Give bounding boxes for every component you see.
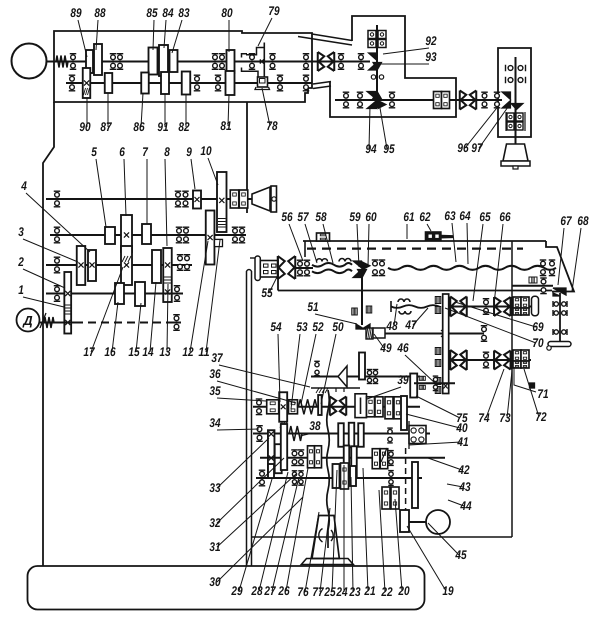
gear 89 [86, 50, 93, 73]
svg-text:10: 10 [200, 144, 211, 158]
svg-text:77: 77 [312, 585, 324, 599]
block R1-a [513, 297, 521, 308]
bearing A2-4 [277, 75, 284, 91]
svg-text:95: 95 [383, 142, 395, 156]
bearing B2-5 [494, 92, 501, 108]
gear block 96b [442, 92, 450, 109]
knee right vertical line [511, 241, 513, 537]
shaft F5 [409, 521, 426, 523]
elastic coupling B2 [460, 91, 477, 110]
gear 12 side lug [215, 239, 223, 246]
svg-text:22: 22 [381, 585, 393, 599]
worm bevel [356, 324, 364, 329]
leader 74 [486, 369, 504, 418]
bearing h-1 [553, 301, 567, 307]
vertical shaft B [376, 25, 378, 108]
telescopic shaft lower wavy [312, 270, 352, 274]
leader 38 [300, 433, 313, 436]
svg-text:83: 83 [178, 6, 189, 20]
leader 30 [217, 497, 303, 582]
block F5-a [382, 487, 390, 509]
bearing III-3 [184, 255, 191, 271]
console bottom edge [278, 290, 552, 292]
svg-text:63: 63 [444, 209, 455, 223]
leader 69 [455, 302, 536, 327]
gear F4-1 [268, 464, 274, 478]
leader 67 [558, 228, 564, 285]
coupler 55 lug [250, 257, 255, 259]
block F1-c [367, 397, 375, 417]
X marks on strip low [444, 384, 448, 389]
leader 82 [185, 94, 187, 127]
bearing F1-1 [256, 399, 263, 415]
block F3-e [372, 449, 380, 469]
bearing II-2 [176, 227, 183, 243]
gear F2-b [349, 423, 355, 448]
elastic coupling 56 [278, 256, 296, 279]
leader 20 [395, 499, 402, 591]
bevel 59/60 mate [358, 270, 367, 278]
leader 43 [447, 484, 463, 487]
elastic coupling on A1 [318, 52, 335, 71]
collar circle left [371, 75, 375, 79]
svg-text:70: 70 [532, 336, 543, 350]
gear block 96a [434, 92, 442, 109]
leader 3 [23, 239, 78, 262]
gear 35g [279, 392, 287, 422]
console top edge [303, 240, 546, 242]
leader 79 [258, 18, 272, 46]
gear 17 [121, 246, 132, 285]
block C-b [516, 113, 523, 121]
bracket hatch [316, 388, 328, 393]
leader 78 [262, 88, 270, 126]
svg-text:34: 34 [209, 416, 220, 430]
leader 7 [146, 159, 148, 224]
base plate [28, 566, 425, 610]
gear F3-d [351, 446, 357, 477]
block F5-b [391, 487, 399, 509]
far-right housing box [498, 48, 531, 137]
bearing A2-2 [194, 75, 201, 91]
leader 21 [363, 468, 368, 591]
svg-text:49: 49 [380, 341, 392, 355]
shaft R2 [449, 359, 531, 361]
block F1-d [375, 397, 383, 417]
svg-text:78: 78 [266, 119, 277, 133]
shaft y286 right [512, 285, 553, 287]
bearing IV-2 [174, 286, 181, 302]
svg-text:59: 59 [349, 210, 360, 224]
svg-text:7: 7 [142, 145, 148, 159]
leader 28 [259, 472, 288, 591]
bearing F3-1 [291, 450, 298, 466]
leader 65 [473, 224, 483, 301]
svg-text:39: 39 [397, 373, 408, 387]
bearing A1-5 [219, 54, 226, 70]
svg-text:41: 41 [457, 435, 469, 449]
leader 46 [405, 355, 436, 384]
svg-text:89: 89 [70, 6, 81, 20]
mechanism 79 lower bracket [242, 68, 259, 78]
shaft V dashed [75, 322, 170, 324]
bearing III-2 [177, 255, 184, 271]
bearing I-2 [175, 191, 182, 207]
bearing F0-1 [367, 370, 373, 384]
gear F2-c [358, 423, 364, 447]
screw arcs [319, 529, 323, 543]
gear 15 [135, 282, 145, 306]
gear 17 x-mark [124, 262, 129, 267]
bearing stub [433, 376, 439, 390]
bearing A1-6b [269, 54, 276, 70]
bevel F0 [338, 366, 347, 387]
leader 89 [78, 20, 87, 57]
svg-text:24: 24 [336, 585, 348, 599]
svg-text:37: 37 [211, 351, 223, 365]
leader 15 [136, 303, 141, 352]
svg-text:94: 94 [365, 142, 376, 156]
bearing IV-1 [54, 286, 61, 302]
knee bottom line [252, 536, 513, 538]
svg-text:27: 27 [264, 584, 277, 598]
leader 31 [217, 474, 296, 547]
stripe s1 [435, 297, 441, 304]
leader 95 [380, 108, 387, 149]
shaft III [46, 264, 192, 266]
bearing II-1 [54, 227, 61, 243]
spring 36s [298, 399, 316, 414]
stripe s6 [435, 387, 441, 394]
block I-b [239, 190, 248, 208]
svg-text:81: 81 [220, 119, 231, 133]
dashed selector shaft [405, 448, 407, 528]
svg-text:44: 44 [460, 499, 472, 513]
shaft A1 [46, 61, 312, 63]
shaft F4 [256, 477, 422, 479]
gear 5 [105, 227, 115, 244]
bearing III-1 [54, 257, 61, 273]
coupling R2-b [494, 351, 511, 370]
leader 16 [112, 302, 118, 352]
mechanism 79 lever [263, 43, 265, 78]
bevel 59/60 [353, 261, 362, 268]
bevel pair 92/93 mate [373, 63, 382, 71]
leader 75 [416, 396, 460, 418]
svg-text:50: 50 [332, 320, 343, 334]
comp top-left block [317, 233, 330, 241]
block R1-d [521, 308, 529, 315]
splined box on y286 [529, 277, 537, 283]
svg-text:14: 14 [142, 345, 153, 359]
vertical handle shaft [559, 293, 561, 341]
motor M1 shaft stub [46, 61, 56, 63]
leader 33 [217, 438, 269, 488]
coupling R1-a [450, 297, 467, 317]
gear 84 [159, 45, 168, 76]
svg-text:52: 52 [312, 320, 323, 334]
bearing h-3 [553, 329, 567, 335]
gear 88 [94, 44, 102, 75]
svg-text:12: 12 [182, 345, 193, 359]
svg-text:20: 20 [398, 584, 410, 598]
worm box 49 [373, 328, 385, 338]
block C-c [507, 122, 514, 130]
gear 16 [115, 283, 124, 304]
svg-text:6: 6 [119, 145, 125, 159]
gear 10 x-mark [219, 198, 224, 203]
machine outline top-left gearbox housing [54, 31, 312, 102]
gear F5-1 [400, 510, 409, 532]
vertical feed shaft [361, 272, 363, 325]
X mark on strip [441, 330, 448, 337]
svg-text:43: 43 [459, 480, 471, 494]
shaft R1 [449, 306, 531, 308]
bearing block B-b [378, 31, 386, 39]
bracket ticks [335, 388, 337, 392]
svg-text:73: 73 [499, 411, 510, 425]
leader 77 [320, 508, 330, 592]
svg-text:91: 91 [157, 120, 168, 134]
leader 24 [343, 465, 345, 592]
leader 11 [206, 240, 220, 352]
clutch 78 inner [260, 79, 266, 84]
screw foot plate [301, 559, 353, 565]
worm hatched box [366, 328, 373, 339]
vertical drop from top housing [246, 102, 248, 213]
svg-text:93: 93 [425, 50, 436, 64]
leader 55 [269, 275, 278, 293]
humps 58 above [339, 259, 351, 262]
leader 52 [301, 334, 316, 404]
gear 85 [149, 48, 158, 75]
svg-text:85: 85 [146, 6, 158, 20]
leader 32 [217, 458, 284, 523]
leader 6 [124, 159, 126, 216]
svg-text:1: 1 [18, 283, 24, 297]
block R2-d [521, 361, 529, 368]
leader 94 [369, 106, 370, 149]
bearing D-3 [372, 260, 379, 276]
bearing R2 [483, 352, 490, 368]
gear 80 [227, 50, 235, 73]
bearing y286 [540, 278, 547, 294]
bearing F4-3 [298, 471, 304, 485]
bearing B2-3 [389, 92, 396, 108]
svg-text:54: 54 [270, 320, 281, 334]
leader 42 [428, 458, 462, 470]
gear 2 [64, 272, 71, 334]
leader 44 [448, 500, 464, 506]
bell base [501, 161, 530, 166]
shaft I [46, 198, 252, 200]
leader 86 [141, 93, 143, 127]
bevel 68 [553, 288, 566, 295]
svg-text:15: 15 [128, 345, 140, 359]
leader 61 [406, 224, 408, 239]
shaft V [40, 322, 75, 324]
svg-text:86: 86 [133, 120, 145, 134]
bearing A1-7 [303, 54, 310, 70]
svg-text:64: 64 [459, 209, 470, 223]
bearing worm-1 [481, 326, 488, 342]
bearing F4-1 [259, 470, 266, 486]
svg-text:28: 28 [251, 584, 263, 598]
leader 68 [572, 228, 581, 291]
svg-text:45: 45 [455, 548, 468, 562]
svg-text:67: 67 [560, 214, 572, 228]
bearing A1-1 [70, 54, 77, 70]
leader 85 [153, 20, 154, 50]
telescopic wavy shaft [388, 266, 556, 270]
block R1-b [521, 297, 529, 308]
svg-text:57: 57 [297, 210, 309, 224]
leader 51 [315, 314, 357, 324]
gear 2 x-marks [65, 291, 70, 296]
gear 3 [77, 246, 86, 285]
clutch 78 flare [255, 87, 270, 90]
svg-text:33: 33 [209, 481, 220, 495]
bearing B1-1 [338, 54, 345, 70]
svg-text:3: 3 [18, 225, 24, 239]
leader 70 [445, 308, 536, 343]
svg-text:16: 16 [104, 345, 116, 359]
leader 76 [305, 512, 319, 592]
leader 87 [107, 93, 109, 127]
leader 88 [96, 20, 98, 50]
svg-text:65: 65 [479, 210, 491, 224]
stripe s4 [435, 360, 441, 367]
svg-text:13: 13 [159, 345, 170, 359]
vertical shaft C [515, 57, 517, 144]
svg-text:74: 74 [478, 411, 489, 425]
leader 9 [191, 159, 195, 189]
leader 19 [407, 526, 446, 591]
block F1-a [267, 400, 279, 414]
leader 49 [374, 334, 384, 348]
svg-text:31: 31 [209, 540, 220, 554]
bearing A2-1 [69, 75, 76, 91]
bearing block B-d [378, 40, 386, 48]
stripe key left [352, 308, 358, 315]
block C-d [516, 122, 523, 130]
leader 22 [379, 490, 385, 592]
leader 59 [357, 224, 359, 267]
bearing B1-2 [358, 54, 365, 70]
leader 56 [289, 224, 303, 261]
leader 4 [26, 193, 90, 252]
leader 57 [305, 224, 317, 263]
gear 33a [268, 430, 275, 473]
spring tick [381, 448, 387, 462]
bearing B2-1 [343, 92, 350, 108]
bearing B2-2 [357, 92, 364, 108]
bracket bar [311, 387, 360, 389]
leader 80 [228, 20, 230, 52]
bearing F3-2 [298, 450, 305, 466]
stripe s2 [435, 307, 441, 314]
gear 17 hatch [122, 256, 131, 262]
svg-text:Д: Д [22, 313, 33, 328]
gear 86 [141, 73, 149, 94]
gear F2-a [338, 423, 344, 447]
block F1-f [394, 397, 402, 419]
leader 92 [383, 48, 429, 54]
bearing D-5 [540, 260, 547, 276]
gear 35g x-mark [281, 404, 286, 409]
leader 54 [278, 334, 280, 402]
svg-text:97: 97 [471, 141, 483, 155]
svg-text:2: 2 [17, 255, 23, 269]
bearing F2-mid [387, 428, 393, 443]
clutch 39 bar [360, 398, 362, 415]
svg-text:51: 51 [307, 300, 318, 314]
shaft F3 [260, 457, 445, 459]
leader 63 [452, 223, 456, 262]
bell clapper [513, 166, 518, 169]
gear 90 [83, 68, 91, 98]
leader 37 [219, 365, 310, 387]
block C rails [505, 112, 507, 131]
bearing A1-3 [117, 54, 124, 70]
gear 13 [163, 248, 172, 302]
block F3-a [308, 446, 315, 468]
humps 48 [398, 299, 410, 302]
outline left edge with step [43, 102, 54, 566]
leader 84 [164, 20, 166, 48]
stripe s3 [435, 348, 441, 355]
svg-text:84: 84 [162, 6, 173, 20]
svg-text:30: 30 [209, 575, 220, 589]
svg-text:4: 4 [20, 179, 26, 193]
shaft F2 [253, 433, 430, 435]
gear 3 x-mark [78, 262, 83, 267]
coupling F1 [330, 397, 347, 416]
bearing A1-4 [212, 54, 219, 70]
stripe key F0a [419, 376, 425, 380]
svg-text:88: 88 [94, 6, 105, 20]
svg-text:71: 71 [537, 387, 548, 401]
humps 47 [399, 311, 411, 314]
comp 61/62 stub [441, 235, 453, 238]
svg-text:87: 87 [100, 120, 112, 134]
leader 36 [217, 381, 296, 403]
motor D circle [17, 309, 40, 332]
gear 10 hatch [218, 219, 226, 228]
leader 29 [239, 479, 272, 591]
pill R1 [532, 296, 539, 315]
leader 1 [23, 297, 64, 307]
bearing block B-c [368, 40, 376, 48]
leader 14 [150, 282, 156, 352]
gear 9 [193, 191, 201, 209]
bearing F0-2 [373, 370, 379, 384]
shaft A1 extension to bevel [312, 61, 370, 63]
gear 87 [105, 73, 113, 93]
feed wavy start tick [390, 301, 392, 312]
stripe key F0b [419, 385, 425, 389]
coupling R2-a [450, 350, 467, 370]
coupler 55 end cap [255, 256, 260, 281]
svg-text:66: 66 [499, 210, 511, 224]
gear F1-g [401, 396, 407, 430]
block R1-c [513, 308, 521, 315]
belt2 upper run [313, 82, 331, 85]
leader 13 [167, 284, 168, 352]
bevel pair 94/95 [367, 92, 377, 100]
leader 81 [228, 95, 229, 126]
svg-text:68: 68 [577, 214, 588, 228]
